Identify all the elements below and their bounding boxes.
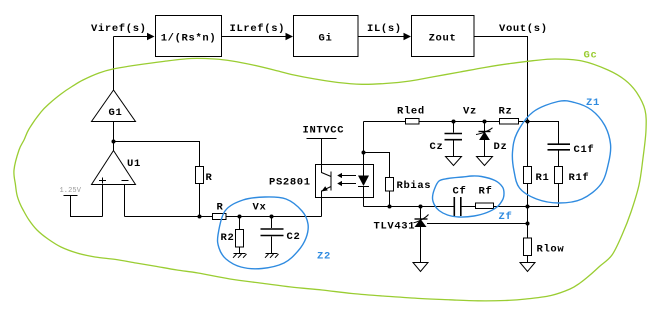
loop Gc (green compensation boundary) (14, 50, 646, 301)
svg-text:R: R (217, 202, 224, 214)
svg-text:Zout: Zout (429, 33, 457, 45)
svg-text:Rz: Rz (499, 106, 513, 118)
node R feedback junction (198, 215, 202, 219)
resistor Rled (397, 106, 425, 125)
wire emitter down to Vx rail (321, 198, 323, 217)
node REF junction (526, 222, 530, 226)
node Vz (463, 106, 477, 118)
node TLV431 cathode junction (419, 205, 423, 209)
svg-text:G1: G1 (109, 107, 123, 119)
svg-text:Vout(s): Vout(s) (499, 23, 548, 35)
loop Z1 (512, 97, 610, 203)
wire U1 plus input lead (102, 185, 104, 217)
svg-text:Rf: Rf (479, 186, 493, 198)
svg-text:U1: U1 (127, 158, 141, 170)
resistor R (feedback, vertical) (196, 167, 213, 185)
svg-text:Rlow: Rlow (537, 244, 565, 256)
node R2 junction (238, 215, 242, 219)
node ILref(s) label (230, 23, 286, 35)
wire Viref vertical down to G1 (113, 37, 115, 91)
svg-text:Z2: Z2 (317, 251, 331, 263)
block Gi (294, 16, 359, 57)
wire IL with arrowhead (358, 33, 411, 41)
wire ILref with arrowhead (222, 33, 294, 41)
op-amp G1 (92, 90, 136, 122)
wire R1f bottom to divider node (528, 184, 559, 207)
svg-text:Cz: Cz (430, 141, 444, 153)
node Vx (253, 202, 267, 214)
wire Vout from Zout to feedback column (474, 37, 528, 122)
wire junction to resistor R (114, 142, 200, 167)
node Dz junction (483, 120, 487, 124)
svg-text:INTVCC: INTVCC (303, 125, 345, 137)
svg-text:Gc: Gc (584, 50, 598, 62)
resistor R (series, horizontal) (213, 202, 227, 220)
svg-text:Rled: Rled (397, 106, 425, 118)
power rail INTVCC (303, 125, 345, 165)
node feedback column top junction (526, 120, 530, 124)
node divider junction (526, 205, 530, 209)
block Zout (412, 16, 475, 57)
node LED anode / Rbias junction (362, 151, 366, 155)
svg-text:Viref(s): Viref(s) (91, 23, 147, 35)
transistor Q1 phototransistor (321, 165, 331, 198)
svg-text:Gi: Gi (319, 33, 333, 45)
svg-text:PS2801: PS2801 (269, 177, 311, 189)
wire U1 minus input lead (124, 185, 126, 217)
svg-text:R1: R1 (536, 172, 550, 184)
resistor Rz (499, 106, 519, 125)
svg-text:1.25V: 1.25V (60, 187, 82, 195)
loop Z2 (218, 197, 331, 269)
wire bottom rail from U1 minus to resistor R series (125, 216, 213, 218)
ground under TLV431 (413, 263, 428, 272)
node Vout(s) label (499, 23, 548, 35)
resistor Rf (476, 186, 494, 209)
svg-text:Cf: Cf (453, 186, 467, 198)
resistor R1f (555, 167, 590, 185)
block 1/(Rs*n) (156, 16, 222, 57)
svg-text:Zf: Zf (499, 211, 513, 223)
svg-text:Vz: Vz (463, 106, 477, 118)
node Viref(s) label (91, 23, 147, 35)
svg-text:C2: C2 (287, 231, 301, 243)
wire Rz to C1f branch (519, 122, 559, 145)
resistor R1 (524, 167, 550, 185)
ground (signal) under C2 (265, 254, 279, 258)
resistor R2 (221, 217, 244, 254)
wire LED anode up to Rled (364, 121, 406, 123)
ground (signal) under R2 (233, 254, 247, 258)
svg-text:R1f: R1f (569, 172, 590, 184)
optocoupler U2 PS2801 body (316, 165, 374, 198)
ground under Rlow (520, 263, 535, 272)
op-amp U1 (92, 151, 141, 185)
svg-text:TLV431: TLV431 (374, 221, 416, 233)
wire REF line to divider (427, 223, 528, 225)
ground under Cz (446, 157, 462, 166)
wire R bottom to Vx rail (199, 184, 201, 217)
capacitor C1f (548, 144, 595, 167)
wire Rled to Rz (419, 121, 500, 123)
wire Viref into summing block with arrowhead (114, 33, 155, 41)
svg-text:1/(Rs*n): 1/(Rs*n) (161, 33, 217, 45)
loop Zf (433, 176, 513, 223)
svg-text:IL(s): IL(s) (367, 23, 402, 35)
shunt regulator TLV431 (374, 207, 429, 263)
node junction G1/U1/R (112, 140, 116, 144)
wire cathode rail (364, 206, 528, 208)
node Rbias bottom junction (388, 205, 392, 209)
svg-text:Rbias: Rbias (397, 180, 432, 192)
resistor Rbias (386, 178, 432, 207)
svg-text:ILref(s): ILref(s) (230, 23, 286, 35)
wire junction to Rbias (364, 153, 390, 178)
svg-text:R: R (206, 172, 213, 184)
capacitor Cf (453, 186, 467, 217)
zener diode Dz (476, 122, 507, 157)
light arrows (337, 173, 356, 186)
diode LED of PS2801 (358, 122, 369, 207)
wire G1 to U1 (113, 122, 115, 151)
capacitor C2 (261, 217, 301, 254)
optocoupler PS2801 label (269, 177, 311, 189)
svg-text:R2: R2 (221, 232, 235, 244)
svg-text:Z1: Z1 (586, 97, 600, 109)
node C2 junction (270, 215, 274, 219)
ground under Dz (477, 157, 493, 166)
voltage source 1.25V (60, 187, 103, 217)
wire Vx rail to optocoupler emitter (226, 216, 322, 218)
node IL(s) label (367, 23, 402, 35)
svg-text:Dz: Dz (494, 141, 508, 153)
node Cz junction (452, 120, 456, 124)
wire feedback column (527, 122, 529, 263)
svg-text:Vx: Vx (253, 202, 267, 214)
capacitor Cz (430, 122, 463, 157)
svg-text:C1f: C1f (574, 144, 595, 156)
resistor Rlow (524, 238, 565, 256)
